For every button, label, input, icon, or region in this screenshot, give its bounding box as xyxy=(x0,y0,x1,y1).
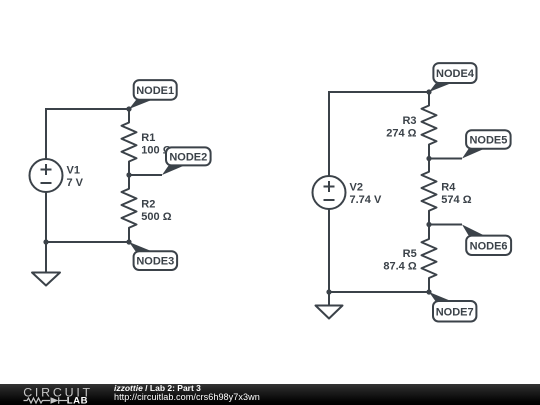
wire V1 bottom to ground node xyxy=(45,193,47,243)
svg-text:R5: R5 xyxy=(403,248,417,260)
wire bottom-right horizontal xyxy=(329,291,429,293)
voltage source V1 xyxy=(30,159,63,192)
svg-text:7.74 V: 7.74 V xyxy=(350,194,382,206)
svg-text:NODE2: NODE2 xyxy=(169,151,207,163)
svg-text:NODE1: NODE1 xyxy=(136,85,174,97)
resistor R3 xyxy=(422,92,437,159)
svg-text:V2: V2 xyxy=(350,182,363,194)
resistor R5 xyxy=(422,225,437,293)
svg-text:R2: R2 xyxy=(141,199,155,211)
wire node NODE5 stub xyxy=(429,158,462,160)
node flag NODE6 xyxy=(462,225,511,256)
node flag NODE4 xyxy=(429,63,477,92)
svg-text:87.4 Ω: 87.4 Ω xyxy=(383,261,416,273)
svg-text:500 Ω: 500 Ω xyxy=(141,211,171,223)
node flag NODE1 xyxy=(129,80,177,109)
footer bar xyxy=(0,384,540,405)
svg-text:7 V: 7 V xyxy=(67,177,84,189)
wire ground lead left xyxy=(45,242,47,273)
wire V2 bottom to ground node xyxy=(328,210,330,293)
svg-text:NODE6: NODE6 xyxy=(470,240,508,252)
junction node (429,224.5) xyxy=(426,222,431,227)
svg-text:R3: R3 xyxy=(402,115,416,127)
junction node (329,292) xyxy=(326,289,331,294)
ground left xyxy=(32,273,60,286)
svg-text:NODE7: NODE7 xyxy=(436,306,474,318)
node flag NODE2 xyxy=(162,147,211,175)
voltage source V2 xyxy=(313,176,346,209)
svg-text:274 Ω: 274 Ω xyxy=(386,128,416,140)
wire node NODE6 stub xyxy=(429,224,462,226)
junction node (429,92) xyxy=(426,89,431,94)
junction node (429,158.5) xyxy=(426,156,431,161)
junction node (46,242) xyxy=(43,239,48,244)
wire top-left horizontal xyxy=(46,109,129,159)
junction node (429,292) xyxy=(426,289,431,294)
junction node (129,242) xyxy=(126,239,131,244)
resistor R1 xyxy=(122,109,137,175)
wire node NODE2 stub xyxy=(129,174,162,176)
svg-text:NODE3: NODE3 xyxy=(136,256,174,268)
node flag NODE3 xyxy=(129,242,177,270)
junction node (129,109) xyxy=(126,106,131,111)
svg-text:R1: R1 xyxy=(141,132,155,144)
svg-text:NODE5: NODE5 xyxy=(469,134,507,146)
junction node (129,175) xyxy=(126,172,131,177)
ground right xyxy=(316,306,343,319)
svg-text:LAB: LAB xyxy=(67,396,88,405)
svg-text:R4: R4 xyxy=(441,182,456,194)
svg-text:V1: V1 xyxy=(67,165,80,177)
wire top-right horizontal xyxy=(329,92,429,176)
node flag NODE5 xyxy=(462,130,511,158)
wire bottom-left horizontal xyxy=(46,241,129,243)
resistor R2 xyxy=(122,175,137,242)
svg-text:574 Ω: 574 Ω xyxy=(441,194,471,206)
node flag NODE7 xyxy=(429,292,476,322)
svg-text:NODE4: NODE4 xyxy=(436,68,475,80)
resistor R4 xyxy=(422,159,437,225)
wire ground lead right xyxy=(328,292,330,306)
CircuitLab logo xyxy=(0,384,100,405)
